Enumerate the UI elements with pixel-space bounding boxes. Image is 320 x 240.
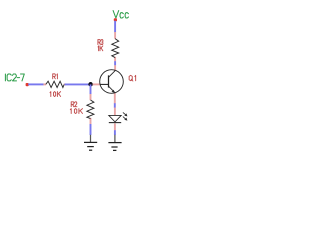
terminal dot at IC2-7 [26,83,29,86]
value 10K of R1 [50,92,61,97]
resistor R1 [43,81,65,87]
transistor Q1 [93,65,124,103]
wire R2 to ground [90,124,92,135]
resistor R2 [87,94,94,124]
resistor R3 [112,32,119,61]
wire R1 to junction and Q1 base [65,83,93,85]
label R3 [98,40,103,45]
wire junction down to R2 [90,84,92,94]
value 10K of R2 [70,109,82,114]
wire Vcc to R3 [114,21,116,33]
label R1 [53,74,58,79]
label R2 [71,102,77,107]
junction dot [88,82,93,87]
power label Vcc [113,11,128,18]
value 1K of R3 [98,46,103,51]
power terminal dot Vcc [114,18,117,21]
wire LED to ground [114,130,116,135]
label Q1 [129,75,136,81]
wire R3 to Q1 collector [114,61,116,65]
wire IC2-7 to R1 [28,83,43,85]
ground under LED [108,135,121,151]
ground under R2 [84,135,97,150]
wire Q1 emitter to LED [114,103,116,108]
LED diode [109,108,128,131]
node IC2-7 input label [5,74,24,81]
